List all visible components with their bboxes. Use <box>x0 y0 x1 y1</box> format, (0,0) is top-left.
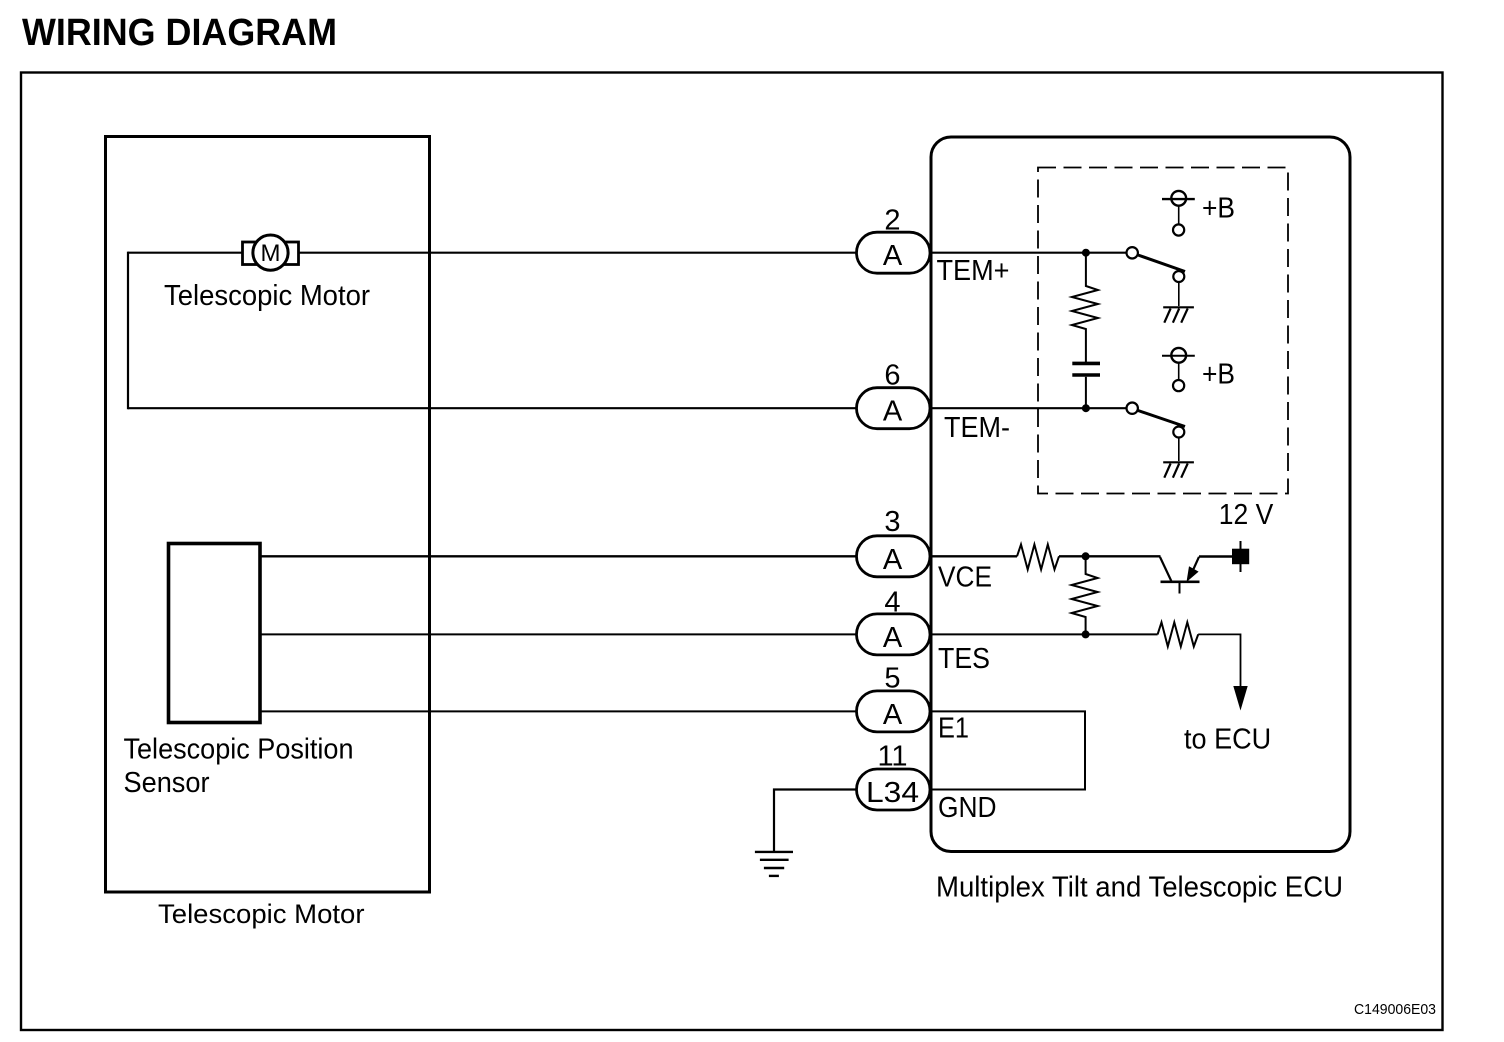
svg-text:GND: GND <box>938 792 997 824</box>
svg-text:11: 11 <box>877 740 907 772</box>
svg-text:Multiplex Tilt and Telescopic: Multiplex Tilt and Telescopic ECU <box>936 872 1343 904</box>
svg-text:M: M <box>261 240 281 267</box>
connector pin 6 A <box>857 360 931 429</box>
node junction on TES <box>1082 630 1090 638</box>
resistor R3 <box>1017 545 1059 570</box>
resistor R2 <box>1072 556 1098 634</box>
svg-text:6: 6 <box>884 360 900 392</box>
svg-text:TES: TES <box>938 643 990 675</box>
svg-text:TEM+: TEM+ <box>937 255 1010 287</box>
arrow to ECU <box>1233 686 1247 711</box>
wire VCE <box>260 555 1017 557</box>
svg-text:A: A <box>883 396 903 428</box>
chassis ground under S1 <box>1163 307 1194 322</box>
svg-text:3: 3 <box>884 506 900 538</box>
+B terminal 2 <box>1162 348 1195 391</box>
svg-text:to ECU: to ECU <box>1184 724 1271 756</box>
relay switch S1 <box>1127 247 1186 306</box>
svg-text:VCE: VCE <box>938 561 992 593</box>
node junction on TEM- <box>1082 404 1090 412</box>
connector pin 2 A <box>857 204 931 273</box>
wire emitter to 12V <box>1199 555 1232 557</box>
12V supply square <box>1232 541 1249 572</box>
svg-text:Telescopic Motor: Telescopic Motor <box>164 280 370 312</box>
wire GND to ground <box>774 790 860 852</box>
connector pin 5 A <box>857 663 931 732</box>
svg-text:E1: E1 <box>938 713 969 745</box>
svg-text:WIRING DIAGRAM: WIRING DIAGRAM <box>22 12 337 54</box>
svg-text:Telescopic Motor: Telescopic Motor <box>158 899 365 929</box>
svg-text:2: 2 <box>884 204 900 236</box>
svg-text:12 V: 12 V <box>1219 499 1274 531</box>
wire TEM+ left segment <box>128 252 244 254</box>
svg-text:L34: L34 <box>866 777 919 809</box>
svg-text:C149006E03: C149006E03 <box>1354 1001 1436 1018</box>
svg-text:+B: +B <box>1202 193 1235 225</box>
wire E1 <box>260 710 860 712</box>
wire R4 to ECU arrow <box>1198 634 1240 687</box>
chassis ground under S2 <box>1163 462 1194 477</box>
capacitor C1 <box>1072 363 1100 375</box>
connector pin 3 A <box>857 506 931 577</box>
dashed relay block <box>1038 168 1288 494</box>
wire capacitor to TEM- node <box>1085 377 1087 408</box>
relay switch S2 <box>1127 403 1186 462</box>
wire TES <box>260 633 1158 635</box>
svg-text:A: A <box>883 622 903 654</box>
node junction on VCE <box>1082 552 1090 560</box>
svg-text:A: A <box>883 699 903 731</box>
svg-text:TEM-: TEM- <box>944 412 1010 444</box>
svg-text:Telescopic Position: Telescopic Position <box>124 734 354 766</box>
+B terminal 1 <box>1162 191 1195 236</box>
wire TEM+ motor to ECU <box>297 252 1126 254</box>
wire TEM- <box>128 407 1126 409</box>
transistor Q1 <box>1160 557 1200 594</box>
connector pin 4 A <box>857 587 931 655</box>
svg-text:Sensor: Sensor <box>124 767 210 799</box>
wire R3 to transistor <box>1059 555 1161 557</box>
svg-text:A: A <box>883 544 903 576</box>
box Multiplex Tilt and Telescopic ECU <box>931 137 1350 852</box>
svg-text:5: 5 <box>884 663 900 695</box>
box Telescopic Position Sensor <box>169 544 261 723</box>
box Telescopic Motor <box>106 137 430 893</box>
svg-text:4: 4 <box>884 587 900 619</box>
resistor R4 <box>1158 622 1199 646</box>
svg-text:A: A <box>883 240 903 272</box>
motor M1 <box>243 235 299 270</box>
svg-text:+B: +B <box>1202 359 1235 391</box>
resistor R1 <box>1072 253 1098 362</box>
ground earth symbol <box>755 852 793 876</box>
wire motor loop left vertical <box>127 252 129 410</box>
wire E1 GND loop <box>931 711 1085 789</box>
connector pin 11 L34 <box>857 740 931 810</box>
node junction on TEM+ <box>1082 249 1090 257</box>
